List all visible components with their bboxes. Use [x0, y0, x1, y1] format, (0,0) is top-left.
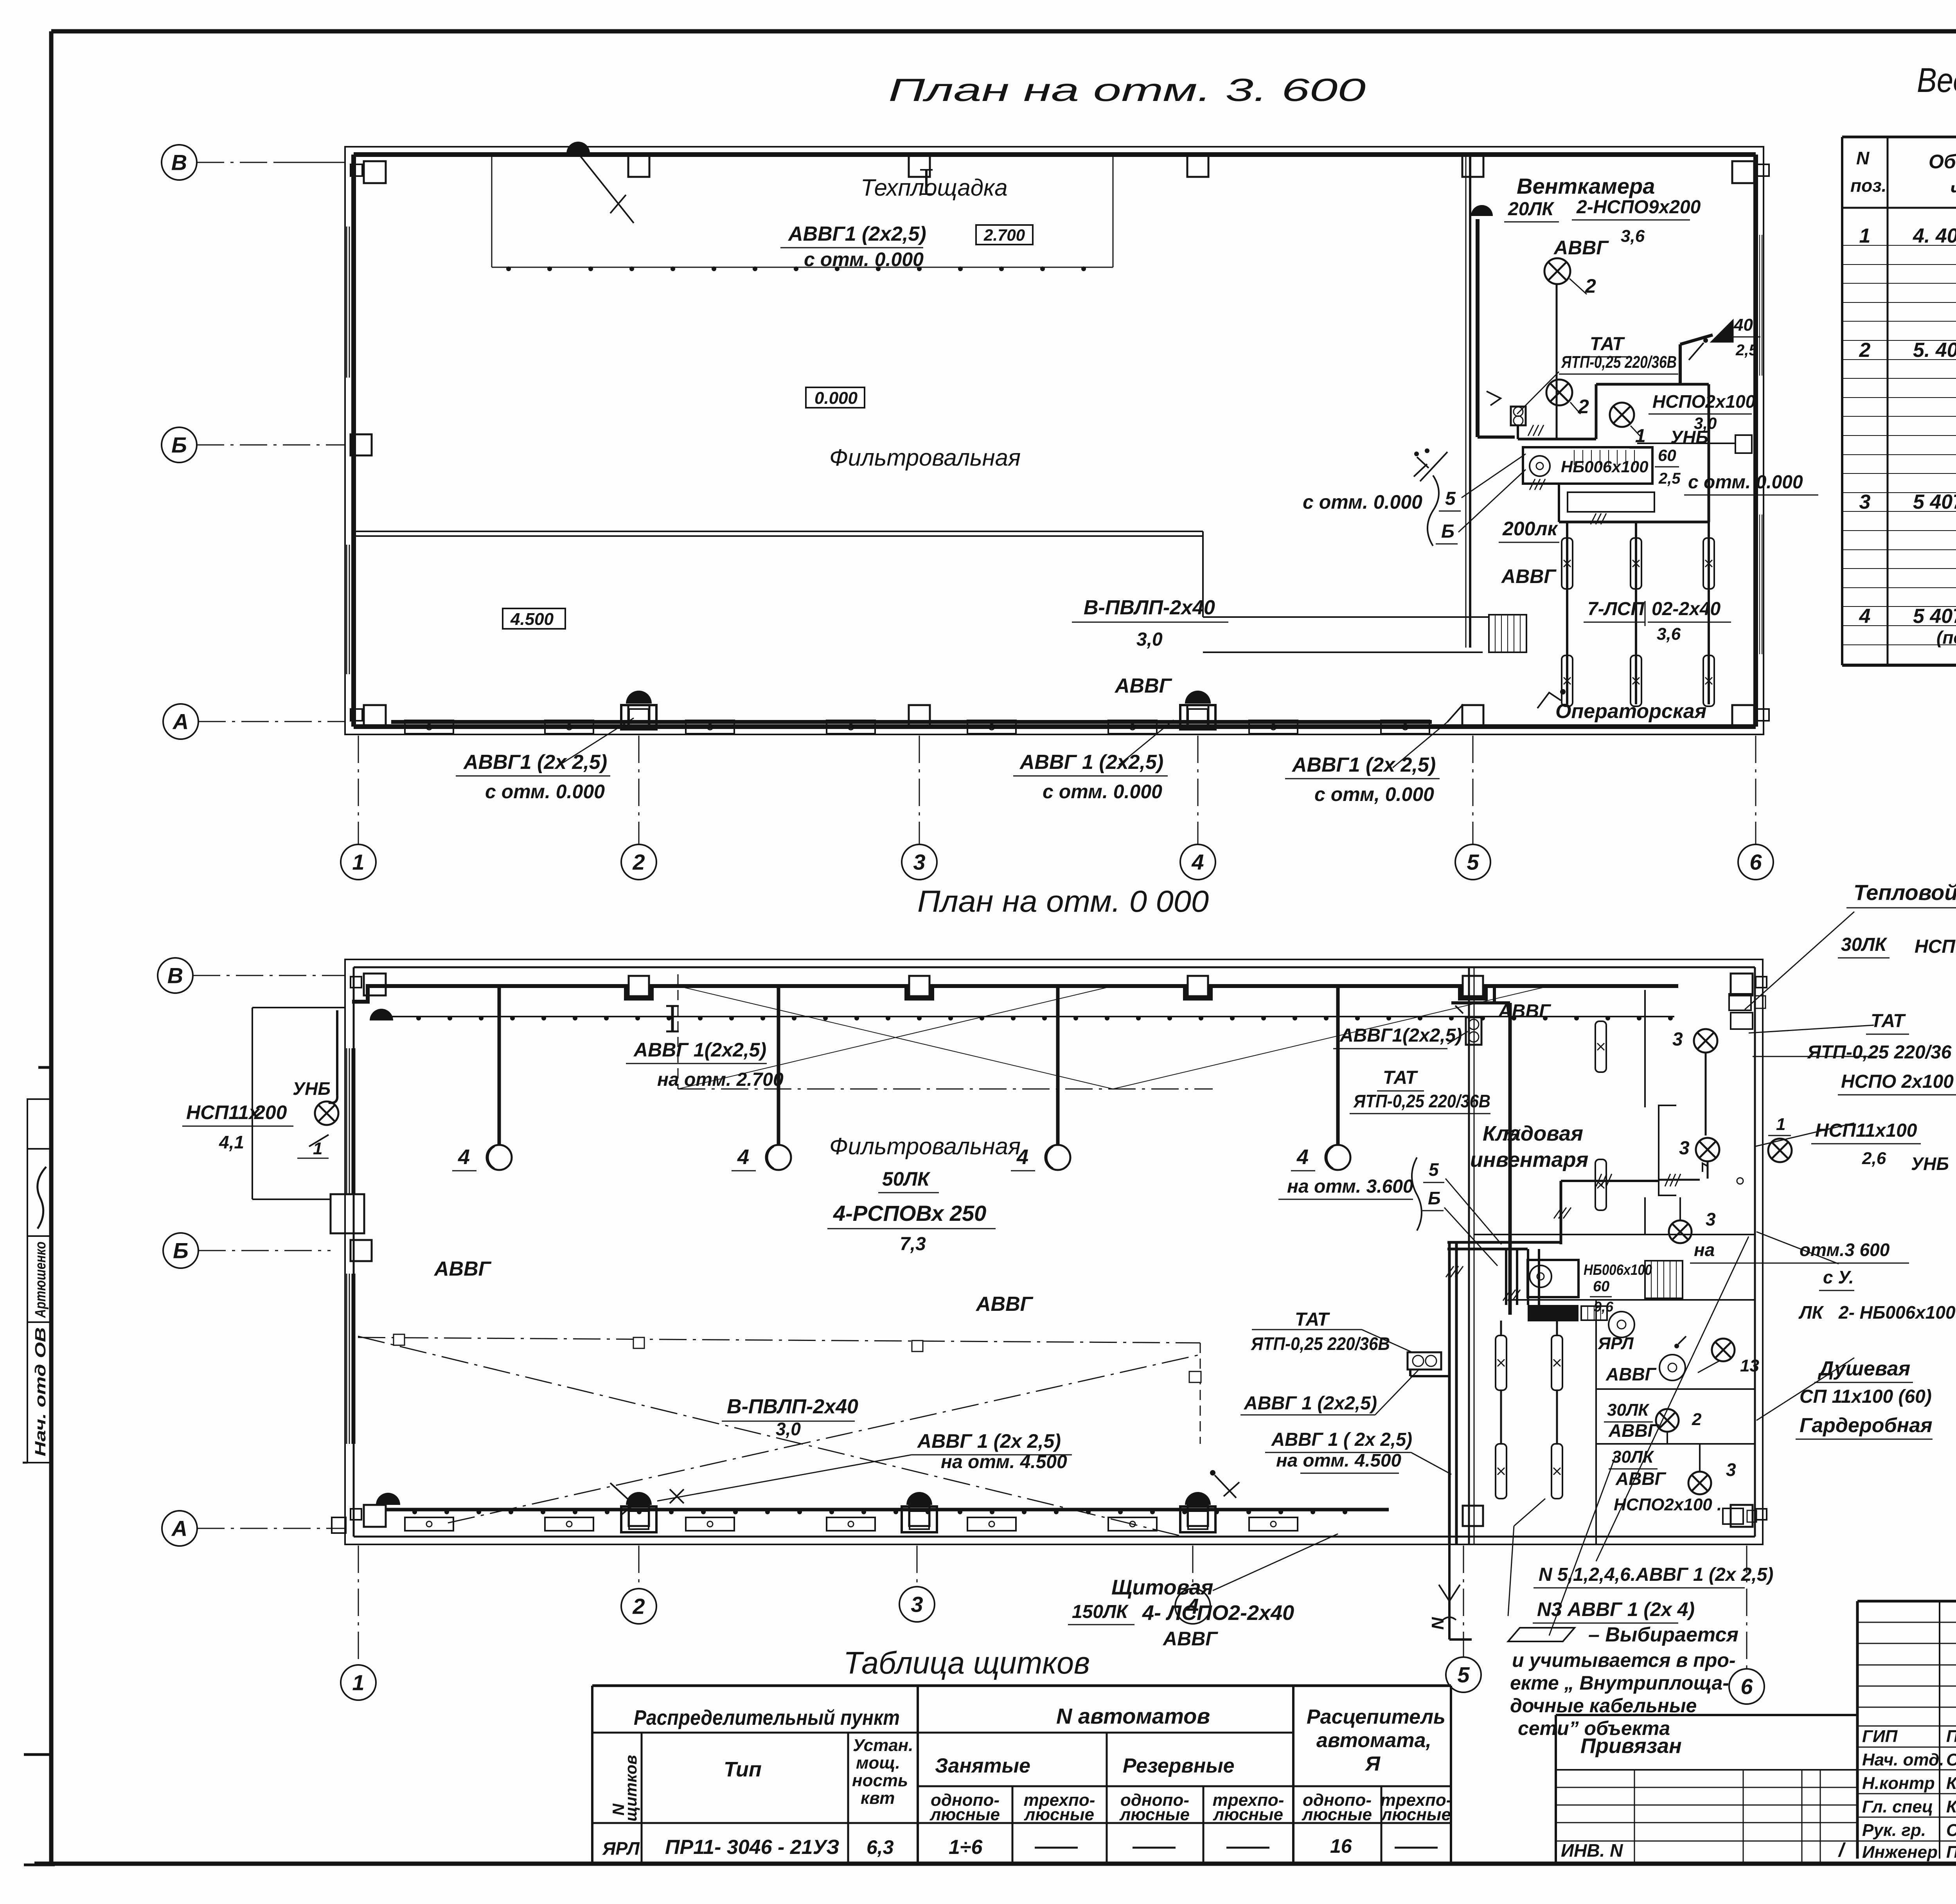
svg-text:Занятые: Занятые [935, 1755, 1030, 1777]
svg-text:1: 1 [352, 1670, 364, 1695]
svg-text:60: 60 [1658, 446, 1676, 464]
svg-text:с отм. 0.000: с отм. 0.000 [804, 248, 924, 270]
svg-text:1: 1 [1859, 225, 1871, 247]
svg-text:люсные: люсные [1381, 1805, 1451, 1824]
svg-text:3: 3 [1859, 491, 1871, 513]
svg-text:Б: Б [1441, 521, 1454, 542]
svg-text:2: 2 [1578, 396, 1589, 418]
svg-text:АВВГ 1 (2х 2,5): АВВГ 1 (2х 2,5) [917, 1430, 1061, 1452]
svg-text:АВВГ1 (2х 2,5): АВВГ1 (2х 2,5) [463, 751, 607, 774]
svg-text:3: 3 [1706, 1209, 1716, 1229]
svg-text:автомата,: автомата, [1316, 1729, 1431, 1752]
svg-text:В-ПВЛП-2х40: В-ПВЛП-2х40 [1084, 596, 1215, 619]
svg-text:4: 4 [1191, 850, 1204, 875]
svg-text:с отм. 0.000: с отм. 0.000 [1303, 491, 1422, 513]
svg-text:с отм. 0.000: с отм. 0.000 [1043, 781, 1162, 803]
svg-text:3: 3 [913, 850, 925, 875]
svg-text:ГИП: ГИП [1862, 1727, 1898, 1746]
svg-text:Провоторова: Провоторова [1946, 1843, 1956, 1862]
svg-text:5: 5 [1457, 1663, 1470, 1687]
svg-text:2: 2 [632, 850, 645, 875]
svg-text:ИНВ. N: ИНВ. N [1561, 1840, 1623, 1861]
svg-text:А: А [171, 1516, 187, 1541]
svg-text:7,3: 7,3 [900, 1234, 926, 1254]
svg-text:на отм. 4.500: на отм. 4.500 [1276, 1450, 1401, 1470]
svg-text:УНБ: УНБ [1911, 1154, 1949, 1174]
svg-text:02-2х40: 02-2х40 [1652, 599, 1720, 619]
svg-text:на отм. 2.700: на отм. 2.700 [657, 1069, 784, 1090]
svg-text:А: А [172, 709, 189, 734]
svg-text:НСП11х100: НСП11х100 [1815, 1120, 1917, 1141]
svg-text:4,1: 4,1 [219, 1132, 244, 1152]
svg-text:квт: квт [861, 1789, 895, 1808]
svg-text:АВВГ1(2х2,5): АВВГ1(2х2,5) [1339, 1025, 1462, 1046]
svg-text:N3 АВВГ 1 (2х 4): N3 АВВГ 1 (2х 4) [1537, 1598, 1695, 1620]
svg-text:(по типу): (по типу) [1936, 627, 1956, 648]
svg-text:4: 4 [737, 1145, 749, 1169]
svg-text:50ЛК: 50ЛК [882, 1168, 931, 1190]
svg-text:АВВГ: АВВГ [1605, 1364, 1657, 1384]
svg-text:4. 407- 233- 001: 4. 407- 233- 001 [1913, 225, 1956, 247]
svg-text:2-НСПО9х200: 2-НСПО9х200 [1576, 197, 1701, 218]
svg-text:Душевая: Душевая [1818, 1357, 1910, 1380]
svg-text:НБ006х100: НБ006х100 [1561, 457, 1649, 476]
svg-text:Обозначение: Обозначение [1929, 151, 1956, 173]
svg-text:Венткамера: Венткамера [1517, 174, 1655, 198]
svg-text:люсные: люсные [1119, 1805, 1190, 1824]
svg-text:5: 5 [1429, 1159, 1439, 1180]
svg-text:5: 5 [1445, 488, 1456, 509]
svg-text:АВВГ 1(2х2,5): АВВГ 1(2х2,5) [633, 1039, 766, 1061]
svg-text:3,6: 3,6 [1621, 227, 1645, 246]
svg-text:Н.контр: Н.контр [1862, 1774, 1935, 1793]
svg-text:6,3: 6,3 [867, 1836, 894, 1858]
svg-text:Фильтровальная: Фильтровальная [829, 1133, 1021, 1159]
svg-text:Артюшенко: Артюшенко [32, 1242, 49, 1318]
svg-text:3: 3 [911, 1592, 923, 1617]
svg-text:Кузнецов: Кузнецов [1946, 1774, 1956, 1793]
svg-text:Кладовая: Кладовая [1483, 1122, 1583, 1145]
svg-text:0.000: 0.000 [814, 389, 858, 408]
svg-text:НБ006х100: НБ006х100 [1584, 1262, 1652, 1278]
svg-text:4: 4 [1859, 605, 1871, 628]
svg-text:инвентаря: инвентаря [1470, 1148, 1588, 1172]
svg-text:3: 3 [1672, 1029, 1683, 1050]
svg-text:СП 11х100 (60): СП 11х100 (60) [1800, 1386, 1932, 1407]
svg-text:2: 2 [1692, 1410, 1702, 1429]
svg-text:3,0: 3,0 [1136, 629, 1163, 650]
svg-text:5: 5 [1467, 850, 1479, 875]
svg-text:Огурцов: Огурцов [1946, 1750, 1956, 1769]
svg-text:Я: Я [1365, 1753, 1381, 1775]
svg-text:люсные: люсные [1213, 1805, 1283, 1824]
svg-text:В-ПВЛП-2х40: В-ПВЛП-2х40 [727, 1395, 858, 1418]
svg-text:Гардеробная: Гардеробная [1800, 1414, 1933, 1437]
svg-text:ПР11- 3046 - 21УЗ: ПР11- 3046 - 21УЗ [665, 1836, 840, 1859]
svg-text:Нач. отд ОВ: Нач. отд ОВ [32, 1327, 49, 1456]
svg-text:люсные: люсные [929, 1805, 1000, 1824]
svg-text:отм.3 600: отм.3 600 [1800, 1240, 1890, 1260]
svg-text:Инженер: Инженер [1862, 1843, 1938, 1862]
svg-text:поз.: поз. [1850, 175, 1886, 196]
svg-text:Таблица щитков: Таблица щитков [843, 1645, 1090, 1680]
svg-text:НСПО2х100 .: НСПО2х100 . [1614, 1495, 1722, 1514]
svg-text:Техплощадка: Техплощадка [861, 175, 1008, 201]
svg-text:6: 6 [1749, 850, 1762, 875]
svg-text:ТАТ: ТАТ [1295, 1309, 1330, 1330]
svg-text:2,5: 2,5 [1735, 342, 1758, 359]
svg-text:Щитовая: Щитовая [1111, 1576, 1213, 1599]
svg-text:N 5,1,2,4,6.АВВГ 1 (2х 2,5): N 5,1,2,4,6.АВВГ 1 (2х 2,5) [1539, 1564, 1773, 1585]
svg-text:АВВГ1 (2х 2,5): АВВГ1 (2х 2,5) [1291, 754, 1436, 776]
svg-text:Привязан: Привязан [1580, 1734, 1682, 1758]
svg-text:N: N [1428, 1617, 1447, 1630]
svg-text:Б: Б [1428, 1188, 1441, 1208]
svg-text:и учитывается в про-: и учитывается в про- [1512, 1649, 1736, 1671]
svg-text:ЯТП-0,25 220/36В: ЯТП-0,25 220/36В [1561, 353, 1677, 372]
svg-text:Нач. отд.: Нач. отд. [1862, 1750, 1944, 1769]
svg-text:Ведомость комплектных лин: Ведомость комплектных линий и узлов [1917, 61, 1956, 99]
svg-text:с отм, 0.000: с отм, 0.000 [1314, 783, 1434, 805]
svg-text:НСПО2х100: НСПО2х100 [1915, 936, 1956, 957]
svg-text:N: N [1856, 148, 1870, 168]
svg-text:2: 2 [632, 1594, 645, 1619]
svg-text:3,0: 3,0 [776, 1419, 801, 1439]
svg-text:150ЛК: 150ЛК [1072, 1602, 1129, 1622]
svg-text:5. 407-19 -30: 5. 407-19 -30 [1913, 339, 1956, 362]
svg-text:ЯРЛ: ЯРЛ [602, 1838, 640, 1859]
svg-text:30ЛК: 30ЛК [1607, 1400, 1650, 1420]
svg-text:В: В [171, 150, 187, 175]
svg-text:1: 1 [352, 850, 364, 875]
svg-text:АВВГ1 (2х2,5): АВВГ1 (2х2,5) [787, 223, 926, 245]
svg-text:НСП11х: НСП11х [186, 1101, 261, 1123]
svg-text:200: 200 [254, 1101, 287, 1123]
svg-text:1: 1 [1776, 1115, 1785, 1134]
svg-text:АВВГ: АВВГ [1553, 237, 1609, 259]
svg-text:В: В [167, 963, 183, 988]
svg-text:ЯТП-0,25 220/36В: ЯТП-0,25 220/36В [1251, 1334, 1390, 1354]
svg-text:4- ЛСПО2-2х40: 4- ЛСПО2-2х40 [1142, 1601, 1294, 1625]
svg-text:ЯТП-0,25 220/36 В: ЯТП-0,25 220/36 В [1807, 1042, 1956, 1063]
svg-text:екте „ Внутриплоща-: екте „ Внутриплоща- [1510, 1672, 1729, 1694]
svg-text:2- НБ006х100: 2- НБ006х100 [1838, 1302, 1956, 1323]
svg-text:ЯТП-0,25 220/36В: ЯТП-0,25 220/36В [1353, 1091, 1490, 1111]
svg-text:Устан.: Устан. [853, 1736, 913, 1755]
svg-text:3,6: 3,6 [1657, 624, 1681, 644]
svg-text:Гл. спец: Гл. спец [1862, 1797, 1933, 1816]
svg-text:Пивторак: Пивторак [1946, 1727, 1956, 1746]
svg-text:УНБ: УНБ [1670, 427, 1708, 447]
svg-text:Рук. гр.: Рук. гр. [1862, 1821, 1926, 1840]
svg-text:40: 40 [1733, 315, 1753, 335]
svg-text:АВВГ: АВВГ [433, 1258, 492, 1280]
svg-text:АВВГ 1 ( 2х 2,5): АВВГ 1 ( 2х 2,5) [1271, 1429, 1412, 1450]
svg-text:6: 6 [1740, 1674, 1753, 1699]
svg-text:Расцепитель: Расцепитель [1307, 1706, 1445, 1728]
svg-text:АВВГ: АВВГ [1162, 1628, 1218, 1650]
svg-text:АВВГ: АВВГ [1608, 1420, 1659, 1441]
svg-text:Фильтровальная: Фильтровальная [829, 445, 1021, 471]
svg-text:НСПО2х100: НСПО2х100 [1652, 391, 1756, 412]
svg-text:чертежа: чертежа [1950, 178, 1956, 200]
svg-text:13: 13 [1740, 1356, 1759, 1375]
svg-text:30ЛК: 30ЛК [1841, 934, 1888, 955]
svg-text:Сидорова: Сидорова [1946, 1821, 1956, 1840]
svg-text:4.500: 4.500 [510, 610, 554, 629]
svg-text:на отм. 4.500: на отм. 4.500 [941, 1452, 1067, 1472]
svg-text:2,6: 2,6 [1862, 1149, 1886, 1168]
svg-text:с отм. 0.000: с отм. 0.000 [1688, 472, 1803, 493]
svg-text:с У.: с У. [1823, 1267, 1854, 1287]
svg-text:с отм. 0.000: с отм. 0.000 [485, 781, 605, 803]
svg-text:1: 1 [313, 1139, 322, 1158]
svg-text:люсные: люсные [1024, 1805, 1094, 1824]
svg-text:– Выбирается: – Выбирается [1588, 1623, 1738, 1646]
svg-text:щитков: щитков [622, 1755, 640, 1821]
svg-text:N автоматов: N автоматов [1056, 1704, 1210, 1728]
svg-text:АВВГ 1 (2х2,5): АВВГ 1 (2х2,5) [1019, 751, 1163, 774]
svg-text:ТАТ: ТАТ [1590, 334, 1625, 355]
svg-text:2: 2 [1859, 339, 1871, 362]
svg-text:дочные кабельные: дочные кабельные [1510, 1695, 1697, 1717]
svg-text:мощ.: мощ. [856, 1753, 900, 1773]
svg-text:5 407-19-21: 5 407-19-21 [1913, 491, 1956, 513]
svg-text:АВВГ 1 (2х2,5): АВВГ 1 (2х2,5) [1244, 1393, 1377, 1414]
svg-text:Кузнецов: Кузнецов [1946, 1797, 1956, 1816]
svg-text:3: 3 [1679, 1138, 1690, 1159]
svg-text:2.700: 2.700 [983, 226, 1025, 244]
svg-text:АВВГ: АВВГ [975, 1293, 1034, 1316]
svg-text:60: 60 [1593, 1278, 1609, 1295]
svg-text:План на отм. 0 000: План на отм. 0 000 [917, 884, 1209, 918]
svg-text:5 407-19-17: 5 407-19-17 [1913, 605, 1956, 628]
svg-text:Резервные: Резервные [1123, 1755, 1235, 1777]
svg-text:3: 3 [1726, 1459, 1736, 1480]
svg-text:20ЛК: 20ЛК [1508, 199, 1555, 220]
svg-text:200лк: 200лк [1502, 518, 1559, 540]
svg-text:на отм. 3.600: на отм. 3.600 [1287, 1176, 1413, 1197]
svg-text:16: 16 [1330, 1835, 1352, 1857]
svg-text:Б: Б [173, 1238, 189, 1263]
svg-text:ТАТ: ТАТ [1383, 1067, 1418, 1088]
svg-text:Б: Б [171, 433, 187, 457]
svg-text:Распределительный пункт: Распределительный пункт [634, 1706, 900, 1729]
svg-text:4: 4 [458, 1145, 470, 1169]
svg-text:АВВГ: АВВГ [1114, 675, 1172, 697]
svg-text:Тип: Тип [724, 1758, 762, 1781]
svg-text:2,5: 2,5 [1658, 470, 1681, 487]
svg-text:на: на [1694, 1240, 1715, 1260]
svg-text:4-РСПОВх 250: 4-РСПОВх 250 [833, 1201, 986, 1226]
svg-text:7-ЛСП: 7-ЛСП [1587, 599, 1645, 619]
svg-text:План на отм. 3. 600: План на отм. 3. 600 [888, 72, 1366, 108]
svg-text:АВВГ: АВВГ [1501, 565, 1557, 587]
svg-text:Операторская: Операторская [1555, 700, 1706, 723]
svg-text:ТАТ: ТАТ [1871, 1011, 1906, 1031]
svg-text:люсные: люсные [1302, 1805, 1372, 1824]
svg-text:ность: ность [852, 1771, 908, 1790]
svg-text:УНБ: УНБ [293, 1078, 331, 1099]
svg-text:АВВГ: АВВГ [1615, 1468, 1667, 1489]
svg-text:4: 4 [1296, 1145, 1309, 1169]
svg-text:Тепловой узел: Тепловой узел [1854, 880, 1956, 905]
svg-text:1÷6: 1÷6 [949, 1836, 983, 1859]
svg-text:ЛК: ЛК [1798, 1302, 1824, 1323]
svg-text:НСПО 2х100: НСПО 2х100 [1841, 1071, 1954, 1092]
